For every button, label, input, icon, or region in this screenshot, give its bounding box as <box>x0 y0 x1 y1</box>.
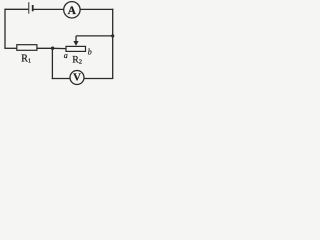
rheostat wiper arrowhead <box>73 41 78 46</box>
battery short plate <box>32 5 34 11</box>
junction dot wiper to right wire <box>111 34 114 37</box>
wire bottom-right horizontal <box>84 78 113 80</box>
resistor R1 box <box>17 45 37 51</box>
wire R1 to junction to R2 <box>37 47 66 49</box>
battery long plate <box>28 2 30 13</box>
wire top-left horizontal <box>5 8 29 10</box>
wire ammeter to top-right corner <box>80 8 113 10</box>
rheostat R2 box <box>66 46 86 51</box>
wire left vertical <box>4 9 6 49</box>
wire voltmeter to loop-left <box>52 78 70 80</box>
wire left to R1 <box>5 47 17 49</box>
paper background <box>0 0 117 88</box>
ammeter A circle <box>64 2 80 18</box>
wire loop-left vertical <box>51 48 53 79</box>
svg-text:A: A <box>68 5 77 17</box>
wire wiper horizontal <box>76 35 113 37</box>
junction dot at node branch <box>51 47 54 50</box>
svg-text:a: a <box>64 51 68 60</box>
rheostat wiper stem <box>75 36 77 42</box>
svg-text:b: b <box>88 48 92 57</box>
wire right vertical <box>112 9 114 79</box>
svg-text:V: V <box>73 71 81 83</box>
voltmeter V circle <box>70 71 84 85</box>
wire battery to ammeter <box>34 8 64 10</box>
